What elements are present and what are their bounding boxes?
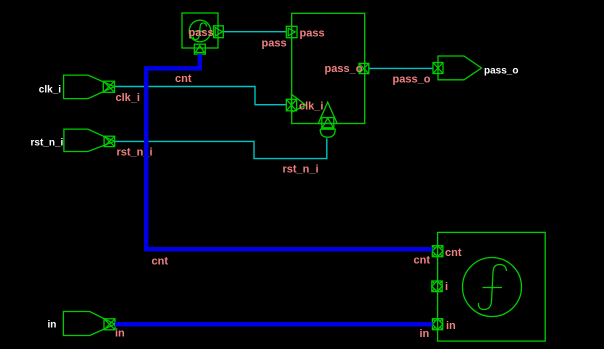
svg-text:in: in	[446, 320, 456, 332]
svg-text:pass: pass	[189, 27, 214, 39]
svg-text:clk_i: clk_i	[299, 101, 323, 113]
bus in (blue)	[115, 322, 432, 327]
svg-text:in: in	[115, 328, 125, 340]
svg-text:in: in	[48, 320, 57, 331]
bus cnt (blue)	[146, 54, 432, 249]
pin U2 clk_i (clock)	[286, 94, 306, 112]
net label rst_n_i (2)	[283, 164, 319, 176]
pin label i (U3)	[445, 281, 448, 293]
pin label pass (U2)	[300, 28, 325, 40]
pin U1 out	[214, 26, 224, 38]
net label in (2)	[420, 328, 430, 340]
svg-text:cnt: cnt	[175, 73, 192, 85]
net label pass	[262, 38, 287, 50]
svg-text:pass_o: pass_o	[484, 66, 518, 77]
svg-text:rst_n_i: rst_n_i	[283, 164, 319, 176]
block U1	[182, 13, 218, 48]
input port clk_i	[64, 75, 115, 99]
svg-text:i: i	[445, 281, 448, 293]
port label rst_n_i	[31, 138, 64, 149]
input port rst_n_i	[64, 129, 115, 151]
pin U3 cnt	[432, 246, 443, 257]
svg-text:pass: pass	[262, 38, 287, 50]
svg-text:rst_n_i: rst_n_i	[31, 138, 64, 149]
port label in	[48, 320, 57, 331]
net label pass_o	[393, 74, 431, 86]
svg-text:cnt: cnt	[414, 255, 431, 267]
net label in (port)	[115, 328, 125, 340]
pin label clk_i (U2)	[299, 101, 323, 113]
svg-text:pass_o: pass_o	[325, 63, 363, 75]
svg-text:clk_i: clk_i	[116, 92, 140, 104]
svg-text:cnt: cnt	[152, 256, 169, 268]
pin label cnt (U3)	[445, 247, 462, 259]
block U2	[292, 13, 365, 123]
pin label in (U3)	[446, 320, 456, 332]
pin U2 pass_o	[359, 63, 369, 73]
net label rst_n_i	[117, 147, 153, 159]
port label clk_i	[39, 85, 61, 96]
pin U3 i	[432, 281, 442, 292]
svg-text:pass: pass	[300, 28, 325, 40]
wire pass U1 to U2 (cyan)	[223, 31, 286, 33]
pin U2 rst_n_i (async reset active-low)	[318, 102, 337, 137]
pin U2 pass	[286, 26, 297, 37]
wire pass_o U2 to output port (cyan)	[369, 67, 433, 69]
wire clk_i (cyan)	[115, 87, 287, 105]
pin U1 cnt (bottom)	[194, 44, 205, 54]
net label clk_i	[116, 92, 140, 104]
pin label pass_o (U2)	[325, 63, 363, 75]
label pass (U1)	[189, 27, 214, 39]
wire rst_n_i (cyan)	[115, 138, 327, 158]
svg-text:in: in	[420, 328, 430, 340]
svg-text:cnt: cnt	[445, 247, 462, 259]
input port in	[63, 312, 115, 336]
svg-text:clk_i: clk_i	[39, 85, 61, 96]
pin U3 in	[432, 319, 442, 330]
block U3	[438, 232, 546, 341]
net label cnt (2)	[152, 256, 169, 268]
port label pass_o	[484, 66, 518, 77]
net label cnt	[175, 73, 192, 85]
output port pass_o	[433, 56, 482, 80]
net label cnt (3)	[414, 255, 431, 267]
svg-text:pass_o: pass_o	[393, 74, 431, 86]
